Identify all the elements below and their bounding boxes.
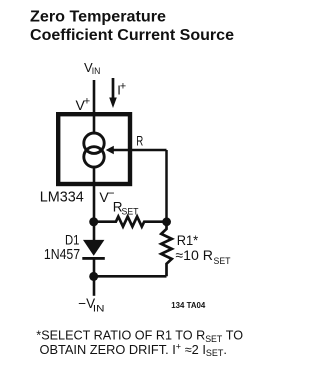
svg-text:+: + (120, 81, 126, 93)
current source circle lower (84, 147, 104, 167)
junction dot bottom (89, 272, 98, 281)
pin label V+ (76, 95, 91, 113)
svg-text:SET: SET (206, 348, 224, 358)
svg-text:OBTAIN ZERO DRIFT. I: OBTAIN ZERO DRIFT. I (40, 342, 176, 357)
resistor R1 (161, 222, 172, 276)
R pin arrow into current source (106, 146, 167, 155)
bottom wire from R1 to junction (94, 275, 167, 278)
svg-text:IN: IN (93, 304, 105, 315)
label approx 10 RSET (175, 247, 230, 267)
current source circle upper (84, 133, 104, 153)
wire VIN to box top (93, 80, 96, 114)
wire circles to below box (93, 167, 96, 240)
svg-text:Zero Temperature: Zero Temperature (30, 9, 166, 26)
svg-text:≈2 I: ≈2 I (181, 342, 206, 357)
label I+ (117, 81, 126, 98)
label RSET (113, 200, 139, 218)
wire inside box top (93, 114, 96, 134)
resistor RSET (94, 217, 167, 227)
LM334 box (58, 114, 130, 184)
diode D1 (82, 240, 105, 260)
svg-text:SET: SET (205, 334, 223, 344)
svg-text:TO: TO (222, 328, 243, 343)
svg-text:SET: SET (214, 256, 231, 267)
svg-text:R: R (136, 132, 143, 148)
node -VIN label (78, 296, 104, 315)
wire R down to Rset junction (165, 150, 168, 222)
svg-text:≈10 R: ≈10 R (175, 247, 213, 263)
svg-text:134 TA04: 134 TA04 (171, 300, 205, 310)
svg-text:1N457: 1N457 (44, 247, 80, 263)
footnote line 2 (40, 341, 227, 358)
node VIN label (84, 60, 101, 77)
svg-text:−: − (108, 186, 115, 200)
svg-text:+: + (84, 95, 90, 107)
svg-text:D1: D1 (65, 232, 80, 248)
current arrow I+ (109, 78, 117, 108)
wire junction to -VIN (93, 276, 96, 296)
junction dot right of RSET (162, 217, 171, 226)
pin label V- (99, 186, 114, 205)
svg-text:LM334: LM334 (40, 189, 84, 205)
svg-text:.: . (223, 342, 227, 357)
footnote line 1 (36, 328, 243, 344)
wire diode to bottom junction (93, 259, 96, 277)
junction dot left of RSET (89, 217, 98, 226)
svg-text:IN: IN (92, 66, 101, 77)
svg-text:Coefficient Current Source: Coefficient Current Source (30, 27, 234, 44)
title (30, 9, 234, 44)
